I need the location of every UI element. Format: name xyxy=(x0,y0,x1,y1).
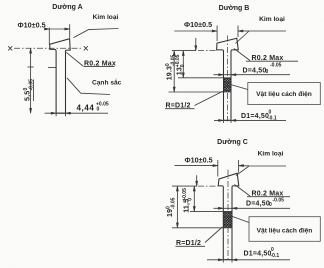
arrow Ф10 B left xyxy=(212,30,217,32)
rivet outline B xyxy=(217,38,239,120)
dimension D1 line C xyxy=(207,259,290,261)
dimension 4.44 line tail A xyxy=(98,112,108,114)
rivet outline A (flange + stem) xyxy=(50,39,70,114)
arrows D B xyxy=(219,74,224,76)
dimension text 5.5 A (rotated) xyxy=(23,79,34,101)
leader R=D1/2 C xyxy=(205,227,222,243)
extension line Ф10 B left xyxy=(216,26,218,42)
arrow 5.5 bottom A xyxy=(30,108,32,113)
top extension line B xyxy=(172,50,196,52)
arrow 4.44 left A xyxy=(51,112,56,114)
extension lines D1 C xyxy=(223,260,232,263)
extension line Ф10 A right xyxy=(69,24,71,38)
dimension 19.3 line B xyxy=(173,51,175,92)
extension line hatch top C xyxy=(190,210,223,212)
leader insulator box C xyxy=(233,217,250,223)
insulator box B xyxy=(248,83,320,105)
dimension line Ф10 B right xyxy=(238,30,249,32)
top extension dash C xyxy=(198,185,218,187)
dimension line Ф10 A xyxy=(45,28,70,30)
dimension text 13 B (rotated) xyxy=(175,54,186,75)
dimension text 11.5 C (rotated) xyxy=(182,188,193,213)
dimension line Ф10 C right xyxy=(239,165,249,167)
dimension D1 line B xyxy=(214,119,286,121)
arrow Ф10 C right xyxy=(239,165,244,167)
arrow 4.44 right A xyxy=(66,112,71,114)
dimension 11.5 line C xyxy=(193,186,195,211)
section mark x right A xyxy=(84,46,88,50)
dimension line Ф10 C left xyxy=(175,165,218,167)
small extension tick A xyxy=(48,67,56,69)
arrow Ф10 A right xyxy=(65,28,70,30)
insulator hatch C xyxy=(223,211,232,227)
arrows D C xyxy=(218,207,223,209)
leader R0.2 Max C xyxy=(235,185,251,197)
insulator box C xyxy=(249,217,320,242)
insulator hatch B xyxy=(224,78,232,92)
underline R0.2 Max C xyxy=(247,196,290,198)
extension line hatch bottom B xyxy=(169,91,224,93)
top extension line C xyxy=(172,185,197,187)
arrow Ф10 B right xyxy=(238,30,243,32)
arrow Ф10 A left xyxy=(44,28,49,30)
arrows D1 C xyxy=(218,259,223,261)
extension line hatch bottom C xyxy=(172,227,223,229)
centerline C xyxy=(227,170,229,261)
short vertical arrow C xyxy=(196,175,198,186)
dimension 13 line B xyxy=(182,51,184,78)
dimension D line B xyxy=(214,74,291,76)
underline R0.2 Max A xyxy=(84,66,115,68)
short vertical arrow B xyxy=(195,38,197,51)
dimension line Ф10 B left xyxy=(174,30,217,32)
dimension 4.44 line A xyxy=(45,112,98,114)
extension lines 4.44 A xyxy=(56,113,65,116)
underline R=D1/2 C xyxy=(176,245,206,247)
underline R0.2 Max B xyxy=(246,60,298,62)
top extension dash B xyxy=(198,50,217,52)
hatch border C xyxy=(223,211,232,227)
tick 5.5 A xyxy=(28,66,34,68)
leader R=D1/2 B xyxy=(195,91,223,105)
dimension 19 line C xyxy=(176,186,178,228)
dimension 5.5 line A xyxy=(30,48,32,113)
extension line hatch top B xyxy=(178,77,224,79)
dimension text 19.3 B (rotated) xyxy=(165,54,176,80)
arrows D1 B xyxy=(219,119,224,121)
rivet outline C xyxy=(218,173,239,259)
leader Kim loại A xyxy=(74,29,119,38)
leader Cạnh sắc A xyxy=(67,78,110,95)
extension lines D1 B xyxy=(224,120,232,123)
arrow Ф10 C left xyxy=(213,165,218,167)
leader R0.2 Max B xyxy=(234,49,250,61)
leader Kim loại C xyxy=(236,166,286,176)
extension line Ф10 C right xyxy=(238,160,240,173)
extension line Ф10 C left xyxy=(217,160,219,177)
dimension text 19 C (rotated) xyxy=(165,197,176,217)
leader R0.2 Max A xyxy=(66,52,83,66)
centerline B xyxy=(226,36,228,122)
leader insulator box B xyxy=(231,85,248,90)
extension line Ф10 B right xyxy=(237,26,239,38)
section line x-x A xyxy=(14,47,83,49)
extension line Ф10 A left xyxy=(48,28,50,45)
underline R=D1/2 B xyxy=(165,108,195,110)
arrow 5.5 top A xyxy=(30,48,32,53)
dimension D line C xyxy=(214,207,291,209)
underline 5.5 A xyxy=(33,80,35,102)
leader Kim loại B xyxy=(236,31,287,44)
hatch border B xyxy=(224,78,232,92)
section mark x left A xyxy=(8,46,12,50)
